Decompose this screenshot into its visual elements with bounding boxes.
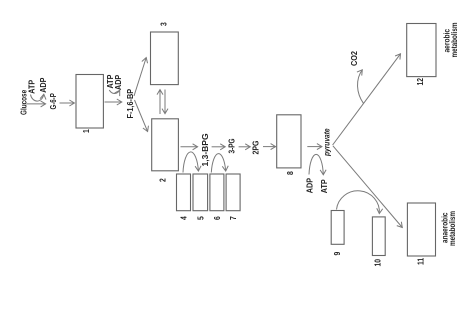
wire 2PG to box 8 [263,146,276,148]
svg-text:ATP: ATP [27,80,37,94]
arc NAD/NADH over boxes 4 and 5 [183,152,198,173]
svg-text:5: 5 [196,216,206,220]
box 6 [210,174,224,211]
wire isomerase down arrow [164,90,166,114]
box 8 (PEP) [277,115,301,168]
svg-text:3: 3 [159,22,169,26]
arc ADP/ATP over boxes 6 and 7 [211,154,225,173]
wire box 1 to F-1,6-BP [105,101,122,103]
wire Glucose to G-6-P arrow [27,103,46,105]
wire G-6-P to box 1 [60,102,75,104]
ADP to ATP arc (pyruvate kinase) [309,154,323,174]
svg-text:2: 2 [158,178,168,182]
svg-text:2PG: 2PG [251,141,261,155]
box 7 [226,174,240,211]
svg-text:F-1,6-BP: F-1,6-BP [126,89,136,119]
box 3 (DHAP) [151,32,179,85]
wire F-1,6-BP to box 2 [135,100,148,132]
svg-text:CO2: CO2 [349,50,359,66]
svg-text:1: 1 [81,129,91,133]
wire box 2 to 1,3-BPG [181,146,198,148]
wire box 8 to pyruvate [307,146,322,148]
svg-text:7: 7 [228,216,238,220]
svg-text:8: 8 [285,171,295,175]
wire isomerase up arrow [159,90,161,114]
svg-text:metabolism: metabolism [447,211,457,246]
wire F-1,6-BP to box 3 [134,58,146,96]
svg-text:metabolism: metabolism [449,22,459,57]
box 4 [177,174,191,211]
svg-text:ADP: ADP [38,78,48,93]
box 2 (G3P) [152,119,179,171]
svg-text:ADP: ADP [113,75,123,90]
svg-text:11: 11 [416,257,426,265]
svg-text:10: 10 [373,259,383,267]
svg-text:9: 9 [332,252,342,256]
wire pyruvate to anaerobic box 11 [333,146,402,228]
wire 3-PG to 2PG [239,146,251,148]
wire 1,3-BPG to 3-PG [212,146,226,148]
svg-text:12: 12 [415,78,425,86]
svg-text:3-PG: 3-PG [226,138,236,153]
ATP to ADP arc (PFK) [109,90,119,93]
box 10 (NAD+) [372,217,385,256]
svg-text:1,3-BPG: 1,3-BPG [200,133,210,166]
box 5 [193,174,208,211]
svg-text:4: 4 [179,216,189,220]
svg-text:ADP: ADP [305,178,315,193]
svg-text:ATP: ATP [319,179,329,193]
svg-text:pyruvate: pyruvate [322,128,332,157]
CO2 branch arc [358,70,364,104]
box 1 (phosphoglucose isomerase) [76,75,103,129]
box 11 (anaerobic metabolism) [407,203,435,256]
svg-text:G-6-P: G-6-P [48,93,58,109]
box 12 (aerobic metabolism) [407,24,436,77]
svg-text:6: 6 [212,216,222,220]
ATP to ADP arc (hexokinase) [31,94,44,101]
arc box 9 to box 10 [337,191,380,214]
wire pyruvate to aerobic box 12 [333,54,401,145]
box 9 (NADH) [331,211,344,245]
